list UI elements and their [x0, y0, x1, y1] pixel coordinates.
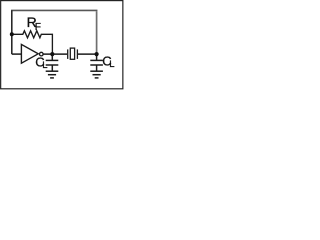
svg-text:L: L: [109, 59, 114, 70]
svg-text:F: F: [35, 22, 41, 33]
svg-text:L: L: [42, 60, 47, 71]
